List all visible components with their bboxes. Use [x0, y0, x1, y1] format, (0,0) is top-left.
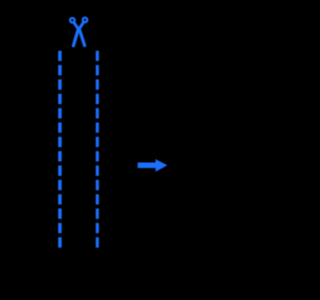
dashed cut line left [58, 51, 62, 249]
arrow [138, 159, 168, 172]
dashed cut line right [96, 51, 99, 249]
scissors icon [70, 18, 87, 46]
